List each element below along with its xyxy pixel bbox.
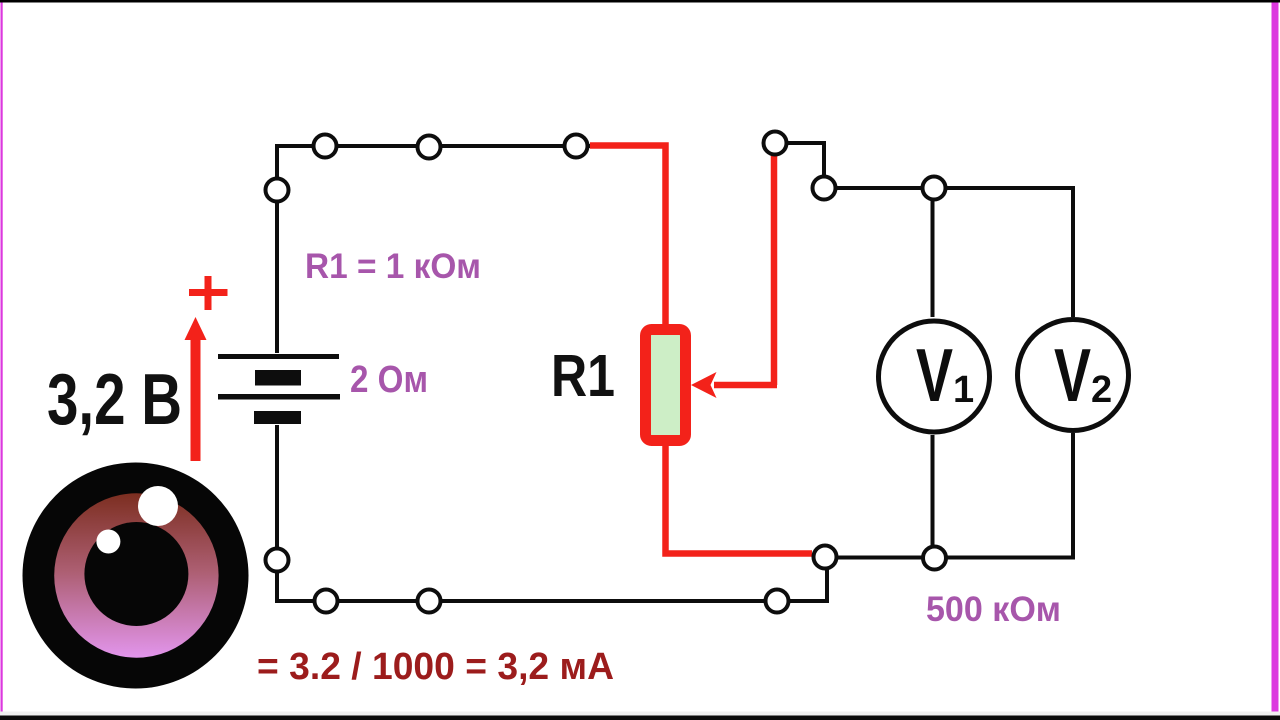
- svg-text:2: 2: [1091, 369, 1112, 411]
- svg-text:3,2 В: 3,2 В: [47, 360, 182, 440]
- svg-text:R1 = 1 кОм: R1 = 1 кОм: [305, 246, 481, 286]
- svg-text:R1: R1: [551, 343, 615, 409]
- svg-text:2 Ом: 2 Ом: [350, 359, 428, 401]
- svg-text:1: 1: [953, 369, 974, 411]
- svg-text:= 3.2 / 1000 = 3,2 мА: = 3.2 / 1000 = 3,2 мА: [257, 646, 614, 688]
- svg-text:V: V: [1054, 333, 1091, 417]
- svg-text:V: V: [916, 333, 953, 417]
- svg-text:500 кОм: 500 кОм: [926, 590, 1061, 629]
